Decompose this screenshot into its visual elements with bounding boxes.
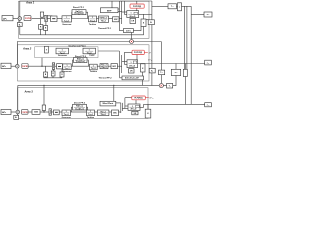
- svg-text:s: s: [179, 7, 180, 9]
- wire hanger22 tap: [52, 69, 54, 71]
- wire r3 to s3: [109, 111, 112, 113]
- turbine 3: [87, 110, 95, 116]
- svg-text:2Hs+D: 2Hs+D: [131, 109, 137, 111]
- svg-text:B₁: B₁: [19, 24, 21, 26]
- governor 1: [62, 16, 72, 22]
- svg-text:ΔPₗ₁: ΔPₗ₁: [2, 18, 7, 20]
- hanger h31: [14, 115, 19, 119]
- svg-text:Turbine: Turbine: [90, 70, 98, 73]
- wire hanger feedback short: [44, 77, 63, 79]
- svg-text:EHP: EHP: [107, 10, 112, 12]
- wire droop feedback line area1: [20, 27, 144, 35]
- wire sum1 to B1 box: [19, 20, 21, 22]
- wire tie row 1-2: [17, 41, 161, 43]
- area 1 box: [19, 1, 150, 38]
- wire FB2 stub left: [119, 77, 122, 79]
- area2 input wire: [11, 65, 16, 67]
- wire s1 to bus1: [119, 18, 122, 20]
- wire R1a box down: [40, 29, 42, 35]
- wire red ctrl2 input: [125, 51, 133, 53]
- tie gain T12: [168, 4, 177, 9]
- red arrow area2 ctrl: [144, 51, 148, 53]
- tiny fraction contents: [60, 6, 143, 116]
- wire wind input down: [113, 85, 115, 101]
- wire B1 box to droop line: [19, 27, 21, 35]
- svg-text:PI-PDF(2): PI-PDF(2): [134, 98, 142, 100]
- svg-text:(1+s)(1+s): (1+s)(1+s): [75, 108, 84, 110]
- limiter box area3: [49, 109, 51, 115]
- box RE0 area2: [149, 68, 155, 73]
- sum circle 1 area2: [15, 64, 19, 68]
- svg-text:2Hs+D: 2Hs+D: [129, 65, 135, 67]
- wire hanger23 tap: [61, 69, 63, 72]
- a23 box right: [205, 103, 212, 107]
- svg-text:Tₙs+1: Tₙs+1: [65, 67, 70, 70]
- bus2 vertical b: [121, 55, 123, 73]
- wire branch diesel2: [73, 60, 74, 66]
- wire s2 to bus2: [117, 65, 121, 67]
- svg-text:Area 2: Area 2: [22, 46, 32, 50]
- hanger h23: [60, 72, 64, 77]
- dead band 2: [57, 64, 63, 69]
- wire sum32 to db3: [51, 111, 53, 113]
- svg-text:a₂₃: a₂₃: [175, 72, 178, 74]
- svg-text:Tₜs+1: Tₜs+1: [90, 21, 95, 23]
- block S1: [113, 17, 120, 22]
- diesel plant 3: [73, 104, 87, 110]
- svg-text:TGPP: TGPP: [89, 55, 95, 57]
- gen1 inner graph: [134, 12, 137, 15]
- wire R1a box up: [40, 19, 42, 25]
- gen2 inner graph: [133, 61, 137, 64]
- proposed controller area3: [132, 96, 146, 100]
- area3 input wire: [11, 111, 16, 113]
- svg-text:Thermal PP-1: Thermal PP-1: [98, 27, 112, 30]
- tie vertical pair b: [186, 6, 188, 69]
- wire bus to gen1 lower: [125, 14, 127, 16]
- red boxes: [22, 16, 32, 115]
- generator 3: [128, 104, 140, 110]
- bus1 vertical c: [124, 1, 126, 15]
- wire sum2 to deadband: [47, 18, 50, 20]
- svg-text:B₁: B₁: [150, 22, 152, 24]
- wire diesel2 out: [87, 60, 88, 66]
- bus2 vertical c: [124, 52, 126, 64]
- wire red ctrl3 down to gen3: [135, 100, 137, 104]
- block SB3: [132, 111, 138, 115]
- box RE0 area1: [148, 20, 154, 25]
- wire FB1 down to tie sum: [131, 33, 133, 40]
- svg-text:Tₙs+1: Tₙs+1: [64, 19, 69, 22]
- svg-text:a₂₃: a₂₃: [207, 105, 210, 107]
- svg-text:T₂₃: T₂₃: [160, 72, 163, 74]
- svg-text:ΔPₜₙₑ: ΔPₜₙₑ: [148, 58, 153, 61]
- wire diesel3 out: [87, 107, 88, 112]
- B1 block under sum1: [17, 23, 22, 27]
- wire hanger23 down: [61, 76, 63, 79]
- wire bottom row to a23: [144, 103, 192, 105]
- wire TB23a down to tie sum23: [160, 75, 162, 84]
- svg-text:ΔPₗ₃: ΔPₗ₃: [1, 112, 6, 114]
- svg-text:T₠s+1: T₠s+1: [101, 21, 106, 23]
- dead band dashes: [52, 19, 61, 113]
- block S3: [112, 110, 119, 116]
- flat box FB2: [122, 76, 144, 80]
- junction area2 geo: [41, 66, 42, 67]
- wire tie top chain left: [152, 5, 168, 7]
- svg-text:Turbine: Turbine: [89, 23, 97, 26]
- wire tiesum23 to TB23c: [164, 85, 167, 87]
- cross marks in sums: [16, 17, 21, 113]
- wire gov3 to turb3: [71, 111, 87, 113]
- wire geo out: [96, 50, 120, 52]
- wire TB1 stub right: [146, 18, 148, 20]
- wire R1b box down: [45, 30, 47, 34]
- dead band 3: [54, 110, 60, 115]
- sum circle 1 area3: [16, 110, 20, 114]
- proposed controller area1: [130, 4, 144, 8]
- svg-text:Area 3: Area 3: [24, 89, 34, 93]
- bus3 vertical a: [120, 103, 122, 113]
- svg-text:Tₙs+1: Tₙs+1: [60, 51, 65, 54]
- hanger h21: [44, 72, 48, 77]
- wire turb3 to r3: [95, 111, 98, 113]
- wire TB3 bottom: [147, 117, 149, 119]
- boxes: [1, 3, 212, 120]
- wire diesel1 out: [86, 12, 88, 18]
- bus2 vertical a: [118, 51, 120, 78]
- svg-text:a₁₂: a₁₂: [207, 14, 210, 16]
- wire EV input from top: [111, 1, 113, 8]
- tie sum 2-3: [159, 84, 163, 88]
- wire TB23c up to TB23b: [173, 76, 176, 86]
- wire governor1 to turbine1: [72, 18, 89, 20]
- limiter box area2: [52, 63, 54, 70]
- summing circles: [15, 17, 163, 114]
- a13 box right: [205, 60, 212, 65]
- wire to a12 box: [191, 14, 204, 16]
- wire tie row 2-3: [18, 84, 160, 86]
- droop R1b block: [44, 26, 48, 31]
- svg-text:Diesel PP-3: Diesel PP-3: [74, 102, 86, 104]
- diesel plant 2: [74, 58, 88, 63]
- area 2 box: [18, 45, 150, 81]
- geothermal rect: [35, 47, 98, 58]
- svg-text:(1+s)(1+s): (1+s)(1+s): [76, 61, 85, 63]
- gen3 inner graph: [136, 105, 140, 108]
- wire turb2 to reheat2: [97, 65, 100, 67]
- svg-text:T₠s+1: T₠s+1: [101, 114, 106, 116]
- wire geo gov to turb: [69, 50, 84, 52]
- svg-text:Governor: Governor: [62, 116, 71, 119]
- svg-text:Diesel PP-1: Diesel PP-1: [73, 7, 85, 9]
- governor 3: [62, 110, 71, 116]
- wire bus to gen2 upper: [122, 61, 127, 63]
- dead band 1: [51, 16, 58, 22]
- svg-text:Area 1: Area 1: [25, 0, 35, 4]
- svg-text:T₃: T₃: [169, 86, 171, 88]
- svg-text:Tₜs+1: Tₜs+1: [88, 114, 93, 116]
- svg-text:FOPID: FOPID: [22, 66, 29, 68]
- wire db2 to gov2: [62, 65, 64, 67]
- wire ctrl3 out: [28, 111, 32, 113]
- junction area3: [43, 111, 44, 112]
- generator 2: [127, 60, 138, 68]
- wire bus to gen1 upper: [122, 11, 127, 13]
- input box A1: [2, 16, 13, 21]
- junction area3 top: [43, 85, 44, 86]
- tall box TB1: [141, 19, 146, 27]
- wire reheat2 to s2: [108, 65, 111, 67]
- wire input A1: [13, 18, 18, 20]
- wire sum2 to R1b box: [45, 22, 47, 26]
- wire red ctrl3 input: [125, 97, 132, 99]
- svg-text:PI-PDF(2): PI-PDF(2): [133, 6, 141, 8]
- svg-text:B₂: B₂: [151, 71, 153, 73]
- block SB2: [129, 69, 135, 73]
- svg-text:2πT/s: 2πT/s: [126, 30, 131, 32]
- area labels: [22, 0, 35, 93]
- gray small labels: [148, 51, 154, 99]
- geo governor: [56, 48, 69, 54]
- wire FB1 stub left: [119, 30, 123, 32]
- wire area2 ACE down: [16, 42, 18, 65]
- limiter marks: [45, 17, 54, 115]
- wire red ctrl1 down to gen1: [136, 8, 138, 11]
- svg-text:2Hs+D: 2Hs+D: [130, 16, 136, 18]
- tie narrow 2: [183, 69, 187, 76]
- bus3 vertical b: [121, 103, 123, 111]
- limiter box area1: [45, 15, 47, 21]
- wire FB1 loop right: [133, 27, 141, 31]
- tall box TB3: [145, 109, 151, 118]
- red cross tie sums: [130, 40, 162, 87]
- wire top into proposed ctrl1: [136, 1, 138, 4]
- wire geo narrow to gov: [48, 50, 56, 52]
- reheat 1: [99, 16, 109, 22]
- flat box FB1: [123, 29, 133, 33]
- controller box area2: [22, 64, 28, 69]
- turbine 1: [89, 16, 97, 22]
- diesel plant 1: [72, 10, 86, 15]
- svg-text:B₃: B₃: [15, 117, 17, 119]
- svg-text:T₁₂: T₁₂: [171, 6, 174, 8]
- wire branch up to diesel1: [71, 12, 73, 18]
- wire deadband to governor1: [57, 18, 62, 20]
- wire gov2 to turb2: [71, 65, 89, 67]
- wire red ctrl2 down to gen2: [136, 55, 138, 60]
- wire NB1 down to chain: [41, 17, 43, 18]
- wind plant box: [100, 101, 116, 106]
- tie box 23c: [167, 84, 173, 89]
- wire gen1 out to tie column: [139, 13, 152, 15]
- svg-text:Governor: Governor: [62, 23, 71, 26]
- svg-text:Tₜs+1: Tₜs+1: [91, 68, 96, 70]
- svg-text:ΔPₗ₂: ΔPₗ₂: [1, 66, 6, 68]
- wire hanger21 tap: [45, 66, 47, 72]
- svg-text:PI-PDF(2): PI-PDF(2): [134, 52, 142, 54]
- input box A3: [1, 110, 11, 115]
- droop R1a block: [38, 25, 43, 30]
- wire turbine1 to reheat1: [97, 18, 99, 20]
- controller box area3: [22, 110, 29, 115]
- turbine 2: [90, 64, 98, 70]
- wire a23 stub: [191, 103, 205, 105]
- wire bus to gen3 lower: [122, 108, 128, 110]
- wire TB23b top to area2 out line: [175, 64, 177, 70]
- block SB1: [130, 18, 136, 23]
- narrow box NB1: [40, 12, 43, 17]
- wire bus to gen3 upper: [125, 105, 128, 107]
- svg-text:Tₙs+1: Tₙs+1: [64, 113, 69, 116]
- junction dots: [41, 66, 114, 113]
- wire gen3 out up: [140, 104, 144, 107]
- wire gen1 branch down to TB1: [143, 14, 145, 19]
- tie sum 1-2: [130, 40, 134, 44]
- wire ACE1 top feedback: [20, 1, 152, 17]
- wire wind out: [116, 102, 121, 104]
- wire sum22 to db2: [55, 65, 57, 67]
- bus1 vertical a: [118, 1, 120, 31]
- svg-text:1: 1: [132, 106, 133, 108]
- tie right long vertical: [190, 6, 192, 104]
- svg-text:FOPID: FOPID: [22, 112, 29, 114]
- wire TB2 out to feedback: [142, 72, 144, 85]
- wire reheat1 to s1: [109, 18, 113, 20]
- block X3: [32, 110, 40, 115]
- wire NB1 side to deadband top: [44, 15, 52, 17]
- wire junction3 feedback down: [43, 85, 45, 112]
- sum circle 1 area1: [18, 17, 22, 21]
- svg-text:(1+s)(1+s): (1+s)(1+s): [75, 13, 84, 15]
- wire tie gap: [177, 5, 178, 7]
- wire s3 to bus3: [119, 111, 121, 113]
- svg-text:Geothermal Plant: Geothermal Plant: [68, 44, 86, 47]
- input box A2: [1, 63, 11, 68]
- tall box TB2: [141, 64, 146, 72]
- red arrow area3 ctrl: [145, 97, 149, 99]
- wire EV out2: [118, 10, 122, 12]
- svg-text:ACE₂=B₂Δf₂+ΔPₜ: ACE₂=B₂Δf₂+ΔPₜ: [125, 77, 140, 80]
- controller box area1: [24, 16, 31, 21]
- svg-text:Governor: Governor: [62, 70, 71, 73]
- proposed controller area2: [132, 50, 144, 54]
- wire area3 ACE down: [17, 85, 19, 110]
- block S2: [111, 64, 117, 69]
- wire sum31 to hang31: [17, 114, 19, 116]
- wire area2 out long: [138, 63, 205, 65]
- tie vertical pair a: [183, 6, 185, 69]
- tie box 23b: [171, 69, 180, 75]
- geo narrow box: [45, 46, 49, 53]
- wire geo branch up: [42, 51, 45, 66]
- bus1 vertical b: [121, 1, 123, 24]
- wire db3 to gov3: [59, 111, 62, 113]
- wire TN2 top stub: [184, 64, 186, 70]
- fraction bars: [58, 12, 134, 113]
- wire x3 to sum32: [40, 111, 49, 113]
- small block tiny texts: [15, 6, 209, 119]
- tie narrow 1: [178, 3, 182, 11]
- wire TB3 feed: [147, 104, 149, 109]
- svg-text:Governor: Governor: [58, 54, 67, 57]
- wire branch diesel3: [72, 107, 73, 112]
- wire tie12 down to TB23a: [160, 42, 162, 71]
- wire tie top chain right: [182, 5, 192, 7]
- wire controller1 out: [32, 18, 45, 20]
- svg-text:FOPID: FOPID: [25, 18, 32, 20]
- wire TN2 below down: [184, 77, 186, 105]
- svg-text:ΔPₜₙₑ: ΔPₜₙₑ: [149, 97, 154, 100]
- svg-text:Wind Plant: Wind Plant: [102, 102, 113, 105]
- svg-text:T₠s+1: T₠s+1: [101, 67, 106, 69]
- a12 box right: [204, 12, 212, 17]
- wire ctrl2 out: [28, 65, 53, 67]
- svg-text:Thermal PP-2: Thermal PP-2: [98, 77, 112, 80]
- svg-text:a₁₃: a₁₃: [207, 62, 210, 64]
- wire bus to gen2 lower: [125, 64, 128, 66]
- red tiny texts: [22, 18, 32, 114]
- governor 2: [63, 64, 71, 70]
- bus3 vertical c: [124, 98, 126, 109]
- wire main tie vertical: [151, 1, 153, 86]
- svg-text:Diesel PP-2: Diesel PP-2: [75, 56, 87, 58]
- reheat 2: [100, 64, 108, 69]
- EV box area1: [101, 8, 119, 13]
- wire EV out1: [118, 8, 119, 10]
- wire hanger22 down: [52, 76, 54, 78]
- generator 1: [127, 11, 139, 18]
- svg-text:Turbine: Turbine: [87, 116, 95, 119]
- junction wind top: [113, 85, 114, 86]
- narrow box NB3: [42, 105, 45, 111]
- area 3 box: [18, 88, 149, 119]
- svg-text:Tₜs+1: Tₜs+1: [87, 52, 92, 54]
- geo turbine: [83, 48, 96, 54]
- reheat 3: [98, 110, 109, 116]
- tie box 23a: [159, 70, 165, 75]
- hanger h22: [51, 71, 55, 76]
